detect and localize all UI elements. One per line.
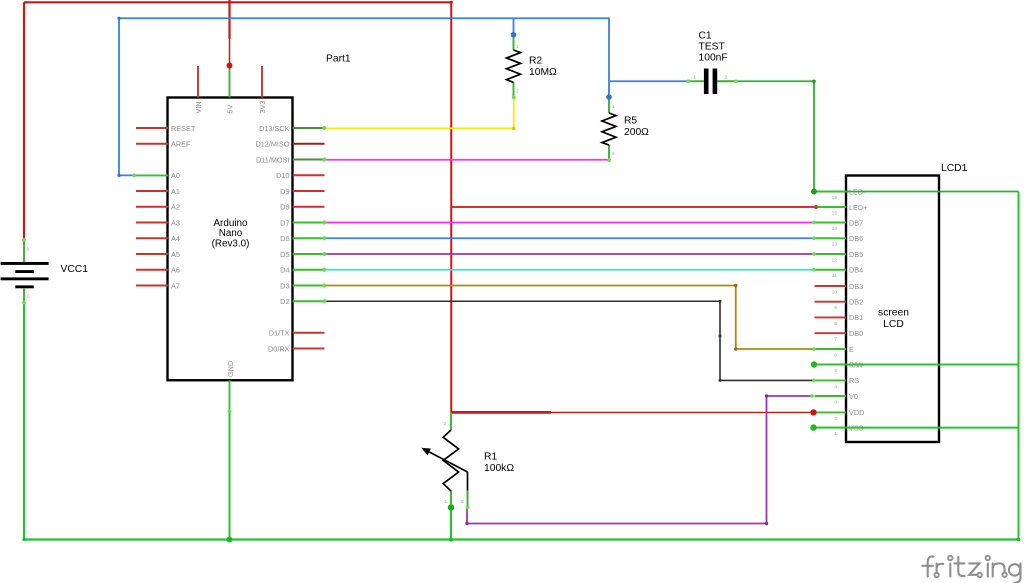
svg-text:A1: A1 bbox=[171, 187, 180, 196]
svg-text:10: 10 bbox=[832, 289, 838, 295]
svg-text:12: 12 bbox=[832, 257, 838, 263]
svg-text:D7: D7 bbox=[280, 218, 289, 227]
svg-text:4: 4 bbox=[834, 384, 837, 390]
svg-text:D4: D4 bbox=[280, 266, 289, 275]
svg-text:6: 6 bbox=[834, 352, 837, 358]
svg-text:DB2: DB2 bbox=[849, 298, 863, 307]
svg-text:D12/MISO: D12/MISO bbox=[255, 140, 289, 149]
svg-text:DB7: DB7 bbox=[849, 218, 863, 227]
svg-text:DB1: DB1 bbox=[849, 313, 863, 322]
svg-text:DB4: DB4 bbox=[849, 266, 863, 275]
svg-text:DB5: DB5 bbox=[849, 250, 863, 259]
svg-text:3V3: 3V3 bbox=[258, 101, 267, 114]
svg-text:D13/SCK: D13/SCK bbox=[259, 124, 290, 133]
svg-text:RS: RS bbox=[849, 376, 859, 385]
svg-text:1: 1 bbox=[445, 499, 448, 505]
svg-text:D6: D6 bbox=[280, 234, 289, 243]
svg-text:7: 7 bbox=[834, 337, 837, 343]
svg-text:9: 9 bbox=[834, 305, 837, 311]
svg-text:D10: D10 bbox=[276, 171, 289, 180]
svg-text:GND: GND bbox=[226, 361, 235, 377]
svg-text:A0: A0 bbox=[171, 171, 180, 180]
svg-text:15: 15 bbox=[832, 210, 838, 216]
svg-text:D5: D5 bbox=[280, 250, 289, 259]
svg-text:RESET: RESET bbox=[171, 124, 196, 133]
svg-text:10MΩ: 10MΩ bbox=[529, 67, 557, 78]
svg-text:D3: D3 bbox=[280, 281, 289, 290]
svg-text:1: 1 bbox=[612, 104, 615, 110]
svg-text:LCD: LCD bbox=[883, 319, 904, 330]
svg-text:2: 2 bbox=[444, 421, 447, 427]
svg-text:R2: R2 bbox=[529, 56, 542, 67]
svg-text:A7: A7 bbox=[171, 281, 180, 290]
svg-text:5: 5 bbox=[834, 368, 837, 374]
svg-text:1: 1 bbox=[516, 44, 519, 50]
svg-text:1: 1 bbox=[693, 75, 696, 81]
svg-text:screen: screen bbox=[878, 308, 909, 319]
svg-text:V0: V0 bbox=[849, 392, 858, 401]
svg-text:Part1: Part1 bbox=[326, 54, 351, 65]
svg-text:VDD: VDD bbox=[849, 408, 864, 417]
svg-text:D0/RX: D0/RX bbox=[268, 344, 290, 353]
svg-text:2: 2 bbox=[516, 89, 519, 95]
svg-text:E: E bbox=[849, 345, 854, 354]
svg-text:5V: 5V bbox=[226, 104, 235, 113]
svg-text:DB3: DB3 bbox=[849, 282, 863, 291]
svg-text:R1: R1 bbox=[484, 452, 497, 463]
svg-text:2: 2 bbox=[834, 416, 837, 422]
svg-text:8: 8 bbox=[834, 321, 837, 327]
svg-text:A2: A2 bbox=[171, 203, 180, 212]
svg-text:LED+: LED+ bbox=[849, 203, 867, 212]
svg-text:11: 11 bbox=[832, 273, 837, 279]
svg-text:1: 1 bbox=[834, 431, 837, 437]
svg-text:VIN: VIN bbox=[194, 101, 203, 113]
svg-text:A5: A5 bbox=[171, 250, 180, 259]
svg-text:3: 3 bbox=[834, 399, 837, 405]
svg-text:LCD1: LCD1 bbox=[941, 163, 968, 174]
svg-text:100nF: 100nF bbox=[699, 53, 728, 64]
svg-text:2: 2 bbox=[27, 247, 30, 253]
svg-text:3: 3 bbox=[461, 499, 464, 505]
svg-text:Nano: Nano bbox=[219, 228, 243, 239]
svg-text:TEST: TEST bbox=[699, 42, 726, 53]
svg-text:2: 2 bbox=[725, 75, 728, 81]
svg-text:DB6: DB6 bbox=[849, 234, 863, 243]
svg-text:D8: D8 bbox=[280, 203, 289, 212]
svg-text:D2: D2 bbox=[280, 297, 289, 306]
svg-text:200Ω: 200Ω bbox=[624, 127, 649, 138]
svg-text:VCC1: VCC1 bbox=[61, 264, 89, 275]
svg-text:A4: A4 bbox=[171, 234, 180, 243]
svg-text:DB0: DB0 bbox=[849, 329, 863, 338]
svg-text:14: 14 bbox=[832, 226, 838, 232]
svg-text:R5: R5 bbox=[624, 116, 637, 127]
svg-text:1: 1 bbox=[27, 294, 30, 300]
svg-text:D9: D9 bbox=[280, 187, 289, 196]
svg-text:D11/MOSI: D11/MOSI bbox=[256, 155, 290, 164]
svg-text:C1: C1 bbox=[699, 31, 712, 42]
svg-text:AREF: AREF bbox=[171, 140, 191, 149]
svg-text:16: 16 bbox=[832, 195, 838, 201]
svg-text:13: 13 bbox=[832, 242, 838, 248]
svg-text:2: 2 bbox=[612, 151, 615, 157]
svg-text:A3: A3 bbox=[171, 218, 180, 227]
svg-text:A6: A6 bbox=[171, 266, 180, 275]
svg-text:100kΩ: 100kΩ bbox=[484, 463, 514, 474]
svg-text:(Rev3.0): (Rev3.0) bbox=[212, 239, 250, 250]
svg-text:D1/TX: D1/TX bbox=[269, 329, 290, 338]
